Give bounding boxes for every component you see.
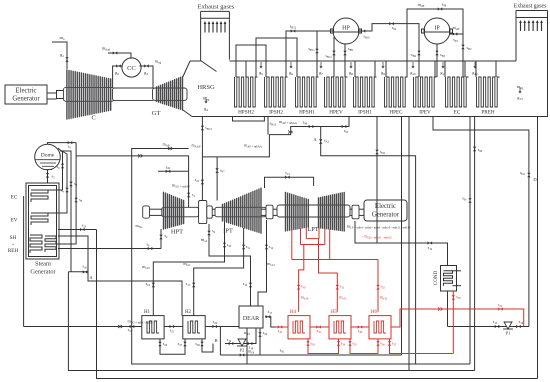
wire H2 drain — [195, 339, 213, 352]
svg-text:Generator: Generator — [372, 212, 400, 219]
svg-text:COND: COND — [434, 271, 439, 286]
svg-text:IP: IP — [434, 26, 440, 32]
feedwater line — [24, 319, 153, 333]
svg-text:IPSH2: IPSH2 — [269, 110, 283, 116]
wire m18 return — [220, 348, 401, 357]
red LPT drop b1 — [318, 228, 320, 239]
wire DEAR down — [246, 328, 248, 364]
wire HPSH2 under-loop — [233, 117, 265, 122]
wire main steam s1 — [48, 141, 196, 207]
wire P1 suction — [447, 291, 449, 327]
HPT-IPT coupling — [199, 201, 213, 224]
HPSH2 outlet header — [236, 45, 266, 77]
SG economizer coil EC — [11, 190, 48, 202]
flue gas node g8 — [349, 62, 353, 76]
shaft coupling C-G1 — [47, 91, 64, 100]
wire A2 run — [202, 117, 415, 365]
svg-text:PREH: PREH — [481, 110, 495, 116]
svg-text:Steam: Steam — [35, 261, 51, 268]
red s31 line — [319, 239, 348, 312]
svg-text:HPEV: HPEV — [329, 110, 343, 116]
SG riser 1 — [48, 148, 64, 190]
flow arrows — [118, 130, 443, 328]
wire H2-DEAR — [205, 319, 239, 328]
wire sB13 drop — [195, 117, 212, 208]
svg-text:IPSH1: IPSH1 — [358, 110, 372, 116]
wire IPEV drop — [408, 117, 410, 371]
svg-text:H1: H1 — [144, 310, 151, 315]
red LPT drop a2 — [300, 228, 302, 244]
red H5 drain — [348, 339, 385, 354]
HP drum — [331, 18, 362, 44]
IP steam top header s98 — [407, 2, 472, 78]
HRSG casing bottom — [192, 116, 548, 118]
label sB12b — [270, 121, 277, 127]
flue gas node g6 — [289, 62, 293, 76]
red join mid — [301, 244, 325, 246]
svg-text:Dome: Dome — [41, 153, 55, 159]
wire bus B2 — [68, 272, 474, 371]
wire left loop — [23, 196, 25, 327]
svg-text:HPT: HPT — [171, 229, 183, 236]
flue gas node g5 — [259, 62, 263, 76]
IP drum drop — [435, 44, 445, 77]
flue gas node g12 — [472, 62, 478, 76]
gas turbine GT — [152, 77, 187, 117]
red LPT drop b2 — [324, 229, 326, 245]
HRSG left stack — [198, 4, 235, 61]
heater H5 — [329, 310, 351, 339]
node A — [68, 230, 96, 379]
HRSG casing top — [190, 60, 516, 62]
wire sD2 line — [375, 117, 385, 244]
HRSG label — [197, 84, 215, 112]
wire s29 drain — [258, 328, 267, 355]
heater H1 — [142, 310, 164, 339]
IP outlet s93 — [450, 25, 463, 43]
deaerator DEAR — [239, 306, 263, 328]
IPT-LPT coupling — [261, 205, 277, 219]
svg-text:CC: CC — [127, 65, 136, 72]
flue gas node g9 — [381, 62, 385, 76]
air inlet line g1 — [52, 35, 69, 69]
red s32 line — [376, 260, 387, 312]
svg-text:Electric: Electric — [15, 88, 36, 95]
svg-text:Exhaust gases: Exhaust gases — [514, 4, 547, 10]
wire DEAR outlet s17 — [265, 309, 276, 327]
shaft HPT-IPT — [212, 209, 222, 215]
HP feed line sB12 — [286, 24, 333, 78]
flue gas node g11 — [440, 62, 446, 76]
wire dome right — [60, 151, 77, 272]
svg-text:HPEC: HPEC — [389, 110, 403, 116]
equation mLP — [347, 224, 411, 230]
HRSG coil HPEC — [385, 77, 408, 116]
svg-text:+: + — [12, 242, 15, 247]
IP drum — [422, 18, 453, 44]
red H6 drain — [388, 339, 453, 354]
condenser COND — [434, 266, 461, 292]
SG superheater coil SH — [8, 235, 56, 254]
wire sD2 drop — [401, 117, 403, 356]
LPT-G2 coupling — [350, 205, 364, 219]
svg-text:Exhaust gases: Exhaust gases — [198, 4, 235, 11]
heater H4 — [288, 310, 310, 339]
HRSG coil EC — [446, 77, 469, 116]
label mAP+mAA — [279, 119, 298, 125]
svg-text:P1: P1 — [506, 331, 511, 336]
svg-text:H6: H6 — [371, 310, 378, 315]
red LPT drop a3 — [305, 227, 307, 238]
wire reheat s24 — [158, 164, 189, 173]
flue gas node g10 — [410, 62, 416, 76]
CC outlet g3 — [139, 59, 161, 89]
heater H6 — [369, 310, 391, 339]
wire cold reheat — [58, 242, 161, 251]
red join outer — [292, 259, 378, 261]
HP steam turbine HPT — [162, 192, 199, 235]
flue gas node g13 — [517, 84, 524, 101]
steam drum Dome — [35, 144, 61, 170]
svg-text:C: C — [92, 114, 96, 121]
red heater feed line — [276, 325, 369, 334]
HP steam outlet sB10 — [359, 22, 421, 77]
svg-text:H4: H4 — [290, 310, 297, 315]
svg-text:EC: EC — [454, 110, 461, 116]
generator G1 (gas turbine electric generator) — [5, 85, 47, 104]
svg-text:EC: EC — [11, 195, 18, 201]
svg-text:GT: GT — [152, 110, 161, 117]
wire s91 recirc — [462, 117, 471, 365]
svg-text:Generator: Generator — [30, 269, 56, 276]
SG riser 2 — [48, 150, 69, 213]
HRSG coil HPSH2 — [235, 77, 258, 116]
steam generator box — [26, 183, 59, 276]
combustion chamber CC — [122, 58, 141, 77]
HRSG left stack flare — [183, 61, 217, 117]
left shaft end — [143, 206, 162, 218]
wire H1-H2 — [164, 325, 183, 334]
wire s23 — [58, 223, 97, 272]
red LPT drop b3 — [329, 229, 331, 259]
equation mLP red part — [362, 234, 392, 240]
wire bus B1 left — [132, 148, 247, 364]
IPSH2 header — [256, 38, 297, 77]
wire LPT exhaust s14 — [355, 221, 448, 266]
pump P2 line — [225, 328, 256, 353]
generator G2 (steam turbine electric generator) — [364, 200, 407, 221]
HRSG coil IPSH1 — [354, 77, 377, 116]
svg-text:EV: EV — [11, 218, 18, 224]
wire bus B1 — [247, 363, 470, 365]
wire s12 extraction — [258, 220, 275, 306]
heater H2 — [183, 310, 205, 339]
HRSG coil HPEV — [325, 77, 348, 116]
HRSG coil PREH — [477, 77, 500, 116]
svg-text:LPT: LPT — [307, 226, 319, 233]
red return line — [391, 302, 524, 327]
HP drum downcomers — [325, 37, 353, 77]
wire A to H2 shell — [96, 281, 182, 316]
wire right outer — [537, 117, 539, 379]
svg-text:B: B — [214, 338, 217, 343]
HRSG coil IPEV — [414, 77, 437, 116]
wire s97 drop — [215, 157, 225, 201]
SG steam to SH — [56, 143, 83, 244]
svg-text:HPSH2: HPSH2 — [238, 110, 254, 116]
svg-text:HP: HP — [342, 26, 350, 32]
LP steam turbine LPT — [277, 192, 350, 233]
red s30 line — [297, 245, 309, 312]
pump P1 line — [448, 319, 529, 336]
svg-text:P2: P2 — [240, 348, 245, 353]
wire s2 HPT exhaust — [135, 223, 168, 249]
wire bus B3 — [96, 378, 538, 380]
wire s11 extraction — [183, 228, 250, 316]
wire s13 crossover — [265, 170, 314, 188]
node B — [214, 327, 220, 356]
dome downcomer — [46, 170, 55, 183]
wire mAP feed — [132, 142, 201, 149]
wire D riser — [433, 117, 537, 327]
shaft C-GT — [113, 88, 155, 100]
svg-text:REH: REH — [8, 248, 19, 254]
red COND drain — [452, 291, 462, 354]
coil stubs — [246, 61, 496, 77]
svg-text:HPSH1: HPSH1 — [299, 110, 315, 116]
svg-text:H2: H2 — [185, 310, 192, 315]
wire H1 drain — [158, 339, 186, 354]
svg-text:SH: SH — [10, 235, 17, 241]
wire s10 extraction — [142, 222, 232, 316]
flue gas node g7 — [319, 62, 323, 76]
svg-text:Electric: Electric — [375, 203, 396, 210]
HRSG coil IPSH2 — [265, 77, 288, 116]
svg-text:H5: H5 — [331, 310, 338, 315]
svg-text:HRSG: HRSG — [197, 84, 215, 91]
red H4 drain — [306, 339, 345, 354]
wire recirc 2 — [473, 117, 483, 371]
svg-text:DEAR: DEAR — [243, 316, 259, 322]
wire s4 extraction — [201, 224, 252, 306]
CC inlet g2 — [113, 64, 123, 88]
svg-text:Generator: Generator — [12, 96, 40, 103]
red LPT drop a1 — [291, 230, 293, 259]
fuel line — [102, 46, 131, 59]
red join inner — [306, 238, 319, 240]
HP drum left sB11 — [308, 31, 318, 77]
SG evaporator coil EV — [11, 213, 48, 225]
HRSG coil HPSH1 — [296, 77, 319, 116]
IP steam turbine IPT — [215, 188, 266, 234]
compressor C — [63, 70, 114, 121]
HRSG right stack — [514, 4, 548, 117]
svg-text:IPEV: IPEV — [419, 110, 431, 116]
